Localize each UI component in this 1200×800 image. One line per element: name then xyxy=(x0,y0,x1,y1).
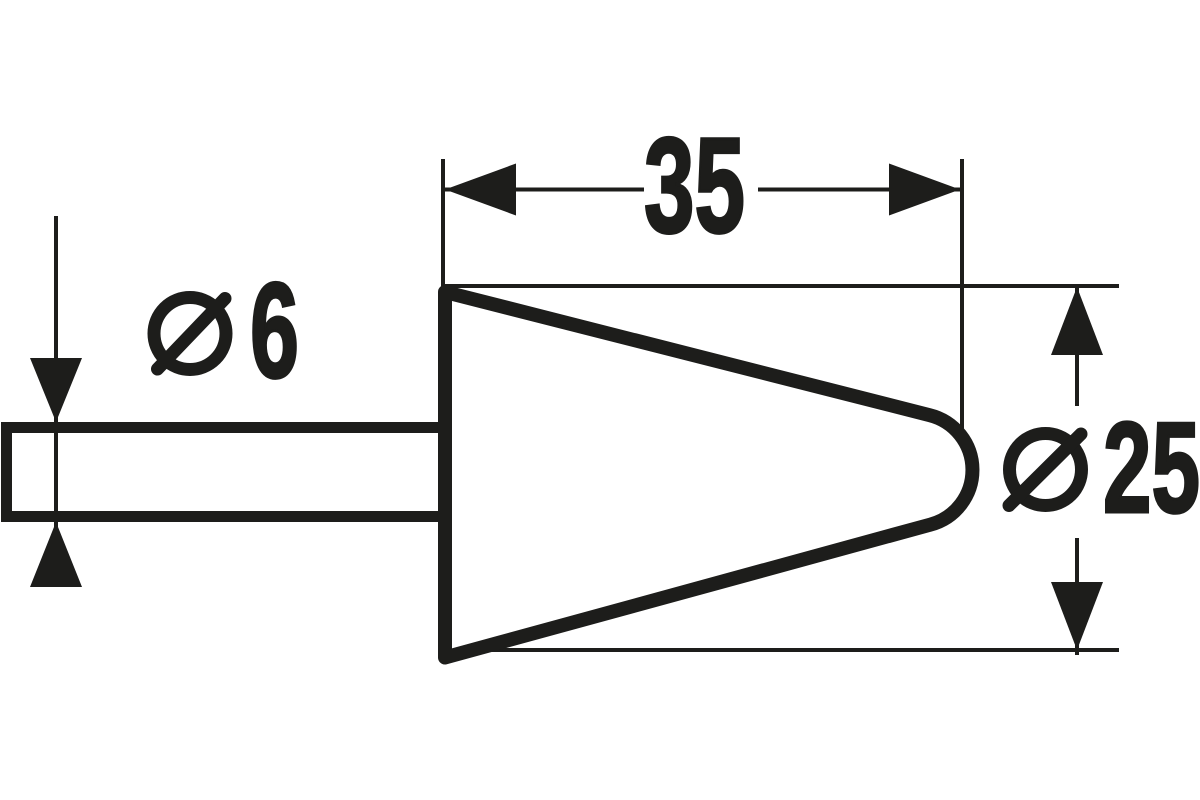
dimension line 35 right segment xyxy=(758,188,962,192)
shaft (shank) outline xyxy=(7,428,452,517)
dimension line Ø25 lower segment xyxy=(1075,538,1079,655)
dimension line Ø25 upper segment xyxy=(1075,287,1079,406)
extension line left (35 dim) xyxy=(441,159,445,287)
svg-text:35: 35 xyxy=(644,109,745,261)
arrow Ø6 bottom (pointing up at shaft bottom edge) xyxy=(30,522,82,587)
arrow Ø6 top (pointing down at shaft top edge) xyxy=(30,358,82,422)
extension line top (Ø25 dim) xyxy=(441,284,1119,288)
svg-text:6: 6 xyxy=(250,254,299,406)
arrow 35 right (pointing right) xyxy=(889,164,960,216)
diameter symbol Ø (of Ø25) xyxy=(1010,434,1082,506)
dimension line Ø6 (vertical through shaft) xyxy=(54,216,58,585)
arrow Ø25 top (pointing up) xyxy=(1051,287,1103,355)
cone body (abrasive head) xyxy=(445,292,972,658)
arrow Ø25 bottom (pointing down) xyxy=(1051,582,1103,650)
extension line right (35 dim) xyxy=(960,159,964,445)
extension line bottom (Ø25 dim) xyxy=(445,648,1119,652)
diameter symbol Ø (of Ø6) xyxy=(154,298,226,370)
arrow 35 left (pointing left) xyxy=(445,164,516,216)
dimension line 35 left segment xyxy=(445,188,644,192)
svg-text:25: 25 xyxy=(1103,396,1200,540)
